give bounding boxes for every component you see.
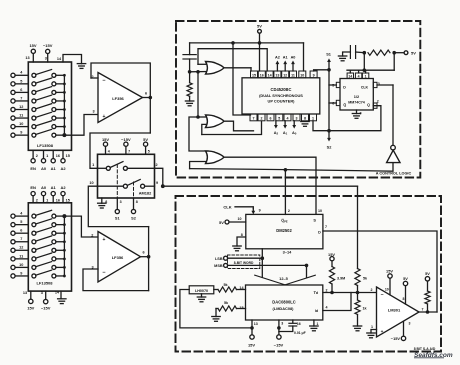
svg-text:7: 7 xyxy=(325,225,327,229)
svg-text:−15V: −15V xyxy=(43,43,53,48)
svg-text:3: 3 xyxy=(45,57,47,61)
svg-text:7: 7 xyxy=(422,307,424,311)
svg-text:S2: S2 xyxy=(327,145,333,150)
svg-text:T̅d: T̅d xyxy=(313,291,319,295)
svg-text:12: 12 xyxy=(19,105,23,109)
svg-text:+: + xyxy=(381,330,384,335)
svg-text:LSB: LSB xyxy=(215,257,223,261)
svg-text:5: 5 xyxy=(148,150,150,154)
svg-text:4: 4 xyxy=(108,150,110,154)
svg-text:13: 13 xyxy=(25,56,29,60)
svg-text:1: 1 xyxy=(371,325,373,329)
svg-text:UP COUNTER): UP COUNTER) xyxy=(268,99,296,104)
svg-text:−15V: −15V xyxy=(391,336,401,341)
svg-text:1: 1 xyxy=(312,117,314,121)
svg-text:15V: 15V xyxy=(27,305,34,310)
svg-text:2: 2 xyxy=(91,234,93,238)
svg-text:A1: A1 xyxy=(51,185,57,190)
svg-text:9: 9 xyxy=(20,271,22,275)
svg-text:+: + xyxy=(103,237,106,243)
svg-text:5V: 5V xyxy=(425,271,430,276)
svg-text:(DUAL SYNCHRONOUS: (DUAL SYNCHRONOUS xyxy=(259,93,303,98)
svg-text:2: 2 xyxy=(288,209,290,213)
svg-text:6: 6 xyxy=(142,251,144,255)
svg-text:A1: A1 xyxy=(51,166,57,171)
svg-text:7: 7 xyxy=(128,150,130,154)
svg-text:CLK: CLK xyxy=(361,85,369,89)
svg-text:8 BIT S-A A/D: 8 BIT S-A A/D xyxy=(414,347,436,351)
svg-text:16: 16 xyxy=(297,322,301,326)
svg-text:10: 10 xyxy=(19,122,23,126)
svg-text:AM182: AM182 xyxy=(139,190,152,195)
svg-text:DAC0800LC: DAC0800LC xyxy=(272,299,295,304)
svg-text:5V: 5V xyxy=(257,24,262,29)
svg-text:16: 16 xyxy=(56,154,60,158)
svg-text:8: 8 xyxy=(304,117,306,121)
svg-text:15V: 15V xyxy=(248,342,255,347)
svg-text:15V: 15V xyxy=(29,43,36,48)
svg-text:2: 2 xyxy=(155,163,157,167)
svg-text:16: 16 xyxy=(260,74,264,78)
svg-text:8: 8 xyxy=(105,200,107,204)
svg-text:2: 2 xyxy=(261,117,263,121)
svg-text:(LMDAC08): (LMDAC08) xyxy=(273,306,295,311)
svg-text:4: 4 xyxy=(287,117,289,121)
svg-text:3–14: 3–14 xyxy=(283,250,292,255)
svg-text:D: D xyxy=(318,231,321,235)
svg-text:6: 6 xyxy=(145,92,147,96)
svg-text:LF13508: LF13508 xyxy=(37,143,54,148)
svg-text:13: 13 xyxy=(275,74,279,78)
svg-text:6: 6 xyxy=(332,101,334,105)
svg-text:1/2: 1/2 xyxy=(354,94,360,99)
svg-text:LF356: LF356 xyxy=(112,255,124,260)
svg-text:1: 1 xyxy=(365,75,367,79)
svg-text:MM74C74: MM74C74 xyxy=(348,101,365,105)
svg-text:9: 9 xyxy=(259,209,261,213)
svg-text:LM301: LM301 xyxy=(388,308,401,313)
svg-text:−15V: −15V xyxy=(41,306,51,311)
svg-text:8: 8 xyxy=(403,297,405,301)
svg-text:15: 15 xyxy=(66,154,70,158)
svg-text:EN: EN xyxy=(30,166,36,171)
svg-text:10: 10 xyxy=(300,74,304,78)
svg-text:2: 2 xyxy=(36,198,38,202)
svg-text:15: 15 xyxy=(66,198,70,202)
svg-text:A1: A1 xyxy=(283,56,288,60)
svg-text:D: D xyxy=(343,85,346,89)
svg-text:DM2502: DM2502 xyxy=(276,228,292,233)
svg-text:10: 10 xyxy=(19,263,23,267)
svg-text:2: 2 xyxy=(377,100,379,104)
svg-text:6: 6 xyxy=(270,117,272,121)
svg-text:Q: Q xyxy=(367,103,370,107)
svg-text:4: 4 xyxy=(358,75,360,79)
svg-text:S: S xyxy=(313,218,316,223)
svg-text:5V: 5V xyxy=(411,50,416,55)
svg-text:−15V: −15V xyxy=(121,137,131,142)
svg-text:4: 4 xyxy=(326,305,328,309)
svg-text:−: − xyxy=(102,78,105,84)
svg-text:LF356: LF356 xyxy=(112,96,124,101)
svg-text:1: 1 xyxy=(46,198,48,202)
svg-text:3: 3 xyxy=(409,321,411,325)
svg-text:3: 3 xyxy=(92,110,94,114)
svg-text:11: 11 xyxy=(19,254,23,258)
svg-text:8: 8 xyxy=(136,200,138,204)
svg-text:5: 5 xyxy=(332,83,334,87)
svg-text:5V: 5V xyxy=(143,137,148,142)
svg-text:9: 9 xyxy=(20,131,22,135)
svg-text:6: 6 xyxy=(20,88,22,92)
svg-text:2: 2 xyxy=(36,154,38,158)
svg-text:+: + xyxy=(103,114,106,120)
svg-text:3: 3 xyxy=(120,200,122,204)
svg-text:CLK: CLK xyxy=(223,205,231,210)
svg-text:7: 7 xyxy=(20,237,22,241)
svg-text:3: 3 xyxy=(41,291,43,295)
svg-text:A2: A2 xyxy=(275,56,280,60)
svg-text:−: − xyxy=(380,292,383,298)
svg-text:−15V: −15V xyxy=(274,342,284,347)
svg-text:12–5: 12–5 xyxy=(279,276,288,281)
svg-text:8-BIT WORD: 8-BIT WORD xyxy=(234,261,254,265)
svg-text:S1: S1 xyxy=(326,51,332,56)
svg-text:12: 12 xyxy=(283,74,287,78)
svg-text:A CONTROL LOGIC: A CONTROL LOGIC xyxy=(376,171,412,175)
svg-text:A0: A0 xyxy=(41,166,47,171)
svg-text:5V: 5V xyxy=(219,220,224,225)
svg-text:EN: EN xyxy=(30,185,36,190)
svg-text:5: 5 xyxy=(278,117,280,121)
svg-text:1: 1 xyxy=(46,154,48,158)
svg-text:15V: 15V xyxy=(386,268,393,273)
svg-text:15: 15 xyxy=(239,306,243,310)
svg-text:10: 10 xyxy=(318,209,322,213)
svg-text:A0: A0 xyxy=(41,185,47,190)
svg-text:12: 12 xyxy=(19,246,23,250)
svg-text:11: 11 xyxy=(291,74,295,78)
svg-text:0.01 μF: 0.01 μF xyxy=(294,331,306,335)
svg-text:5V: 5V xyxy=(403,276,408,281)
svg-text:15: 15 xyxy=(252,74,256,78)
svg-text:15V: 15V xyxy=(102,137,109,142)
svg-text:8: 8 xyxy=(241,233,243,237)
svg-text:5: 5 xyxy=(20,79,22,83)
svg-text:A0: A0 xyxy=(291,56,296,60)
svg-text:A2: A2 xyxy=(60,185,66,190)
svg-text:10: 10 xyxy=(385,288,389,292)
svg-text:10: 10 xyxy=(89,181,93,185)
svg-text:13: 13 xyxy=(23,291,27,295)
svg-text:3: 3 xyxy=(296,117,298,121)
svg-text:−: − xyxy=(102,270,105,276)
svg-text:MSB: MSB xyxy=(214,264,223,268)
svg-text:11: 11 xyxy=(19,113,23,117)
svg-text:S1: S1 xyxy=(115,215,121,220)
svg-text:S2: S2 xyxy=(131,215,137,220)
svg-text:9: 9 xyxy=(313,74,315,78)
svg-text:2: 2 xyxy=(371,288,373,292)
svg-text:3.9M: 3.9M xyxy=(337,276,345,280)
svg-text:9: 9 xyxy=(156,181,158,185)
svg-text:14: 14 xyxy=(348,75,352,79)
svg-text:13: 13 xyxy=(254,322,258,326)
svg-text:5: 5 xyxy=(20,220,22,224)
svg-text:CD4520BC: CD4520BC xyxy=(271,87,292,92)
svg-text:A2: A2 xyxy=(60,166,66,171)
svg-text:14: 14 xyxy=(268,74,272,78)
svg-text:7: 7 xyxy=(20,96,22,100)
svg-text:2: 2 xyxy=(326,288,328,292)
svg-text:LH0070: LH0070 xyxy=(195,289,208,293)
svg-text:3: 3 xyxy=(281,322,283,326)
svg-text:7: 7 xyxy=(253,117,255,121)
svg-text:16: 16 xyxy=(56,198,60,202)
svg-text:1: 1 xyxy=(92,163,94,167)
svg-text:10: 10 xyxy=(238,217,242,221)
svg-text:LF13508: LF13508 xyxy=(36,280,53,285)
svg-text:6: 6 xyxy=(20,229,22,233)
